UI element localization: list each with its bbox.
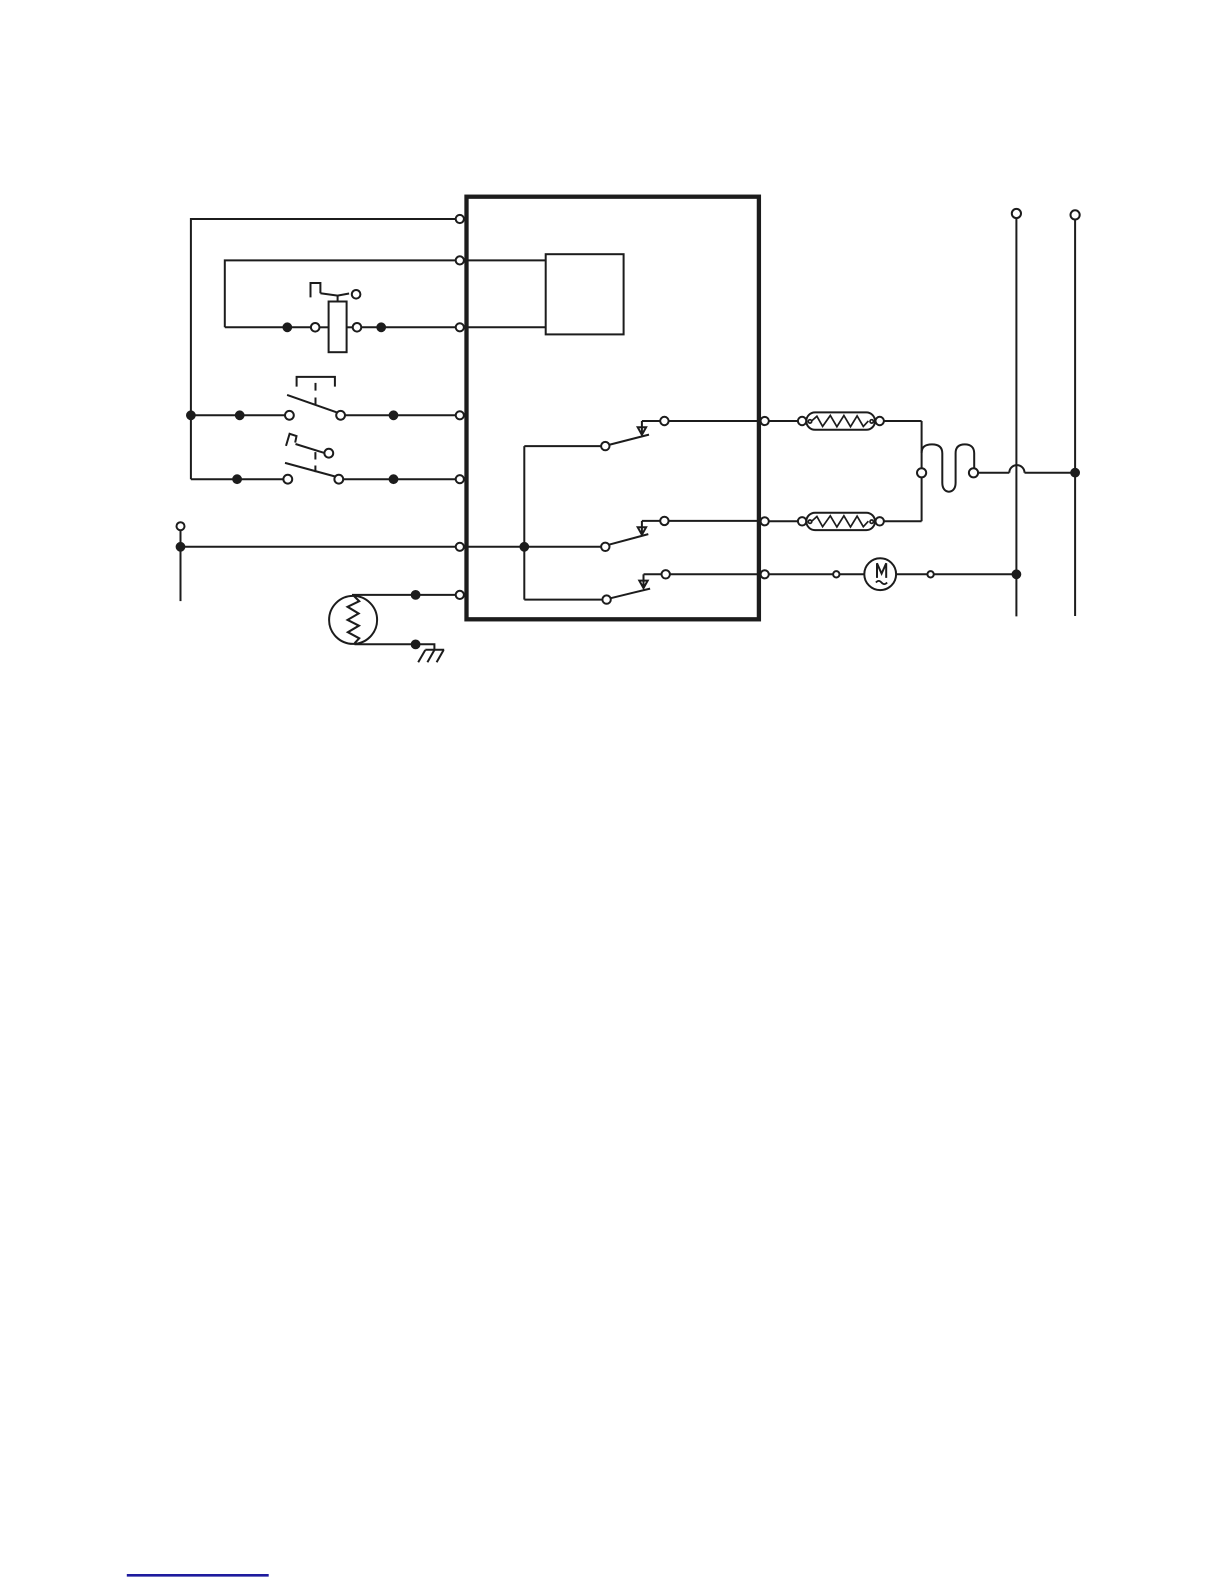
secondary interlock switch left contact — [283, 475, 292, 484]
relay contact right pin — [353, 323, 362, 332]
oven lamp — [329, 596, 377, 644]
wire relay loop top — [225, 260, 456, 327]
primary interlock actuator bracket — [297, 377, 335, 387]
supply probe terminal — [177, 522, 185, 530]
wire relay row right — [361, 326, 455, 328]
wire mid supply — [181, 546, 456, 548]
actuator dashed link — [315, 383, 317, 391]
heater H2 element — [808, 516, 873, 527]
wire controller input bottom — [467, 326, 546, 328]
terminal pin left 2 — [456, 256, 464, 264]
motor M — [864, 558, 896, 590]
wire relay common bus — [467, 546, 602, 548]
wire lamp bottom — [355, 644, 435, 650]
controller block (inner square) — [546, 254, 624, 334]
wire relay1 to edge — [669, 420, 759, 422]
relay contact RY3 — [602, 570, 670, 604]
wire top loop horizontal — [191, 219, 456, 479]
junction dot — [377, 323, 385, 331]
chassis ground — [418, 650, 444, 663]
wire common vertical — [523, 446, 525, 599]
relay lever contact circle — [352, 290, 361, 299]
wire to line 2 — [1025, 472, 1076, 474]
wire — [840, 573, 865, 575]
relay lever — [320, 293, 349, 295]
wire lamp top — [352, 594, 456, 596]
wire to heater 1 — [769, 420, 798, 422]
motor connector pin left — [833, 571, 839, 577]
footer rule (blue) — [127, 1574, 269, 1577]
monitor dashed link — [314, 452, 316, 459]
terminal pin left 6 — [456, 543, 464, 551]
wire heater1 to drop — [884, 420, 922, 422]
terminal pin left 1 — [456, 215, 464, 223]
thermostat left terminal — [917, 468, 926, 477]
heater H1 terminal right — [876, 417, 884, 425]
junction dot — [390, 411, 398, 419]
junction dot — [412, 591, 420, 599]
junction dot — [1013, 570, 1021, 578]
wire relay3 to edge — [670, 573, 759, 575]
supply line 1 terminal — [1012, 209, 1021, 218]
supply line 2 — [1074, 220, 1076, 617]
terminal pin left 5 — [456, 475, 464, 483]
junction dot — [1071, 469, 1079, 477]
wire — [320, 326, 329, 328]
wire motor row — [769, 573, 833, 575]
primary interlock switch right contact — [336, 411, 345, 420]
wire door switch row 1 left — [191, 414, 285, 416]
wire vertical drop — [921, 421, 923, 521]
oven lamp filament zigzag — [348, 596, 360, 643]
terminal pin right 1 — [761, 417, 769, 425]
junction dot — [520, 543, 528, 551]
heater H1 body — [806, 412, 875, 429]
motor connector pin right — [927, 571, 933, 577]
wire to relay contact 3 — [524, 599, 602, 601]
supply line 2 terminal — [1071, 210, 1080, 219]
heater H2 body — [806, 513, 875, 530]
wire hop over line 1 — [1009, 465, 1024, 473]
wire door switch row 1 right — [345, 414, 456, 416]
heater H2 terminal left — [798, 517, 806, 525]
control unit box — [467, 197, 759, 620]
thermostat right terminal — [969, 468, 978, 477]
monitor lever — [296, 444, 325, 453]
junction dot — [412, 641, 420, 649]
relay contact RY2 — [601, 517, 669, 551]
terminal pin right 2 — [761, 517, 769, 525]
supply probe stub — [180, 530, 182, 601]
wire to heater 2 — [769, 520, 798, 522]
heater H2 terminal right — [876, 517, 884, 525]
monitor lever bracket — [286, 434, 297, 446]
terminal pin left 4 — [456, 411, 464, 419]
relay plunger stem — [337, 295, 339, 301]
supply line 1 — [1015, 218, 1017, 616]
terminal pin left 3 — [456, 323, 464, 331]
wire relay row left — [225, 326, 311, 328]
secondary interlock switch right contact — [334, 475, 343, 484]
junction dot — [233, 475, 241, 483]
wire — [347, 326, 353, 328]
junction dot — [283, 323, 291, 331]
primary interlock switch left contact — [285, 411, 294, 420]
wire controller input top — [467, 259, 546, 261]
wire door switch row 2 left — [191, 478, 284, 480]
wire thermostat out — [978, 472, 1009, 474]
relay RY plunger body — [329, 302, 347, 353]
terminal pin left 7 — [456, 591, 464, 599]
junction dot — [177, 543, 185, 551]
heater H1 element — [808, 416, 873, 427]
wire motor to line 1 — [934, 573, 1017, 575]
relay contact left pin — [311, 323, 320, 332]
wire relay2 to edge — [669, 520, 759, 522]
junction dot — [236, 411, 244, 419]
wire to relay contact 1 — [524, 445, 601, 447]
heater H1 terminal left — [798, 417, 806, 425]
wire heater2 to drop — [884, 520, 922, 522]
junction dot — [390, 475, 398, 483]
monitor lever contact circle — [324, 449, 333, 458]
junction dot — [187, 411, 195, 419]
secondary interlock switch arm — [285, 463, 336, 477]
relay bracket — [311, 283, 321, 297]
relay contact RY1 — [601, 417, 669, 451]
terminal pin right 3 — [761, 570, 769, 578]
thermostat sensing loop — [922, 444, 975, 491]
wire door switch row 2 right — [343, 478, 456, 480]
primary interlock switch arm — [287, 395, 337, 413]
wire — [896, 573, 927, 575]
